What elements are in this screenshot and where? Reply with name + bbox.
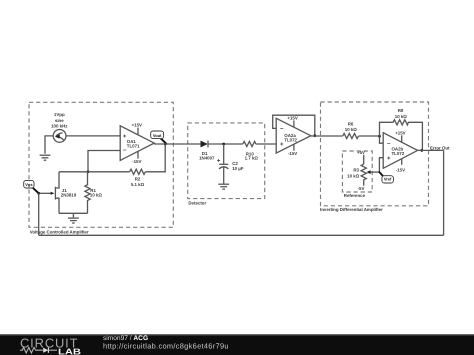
- svg-text:Detector: Detector: [188, 200, 206, 205]
- resistor R6 10k: [343, 122, 359, 139]
- wire: diode to R10: [208, 143, 243, 145]
- wire: R6 to inverting node: [359, 135, 380, 137]
- wire: node into OA2b - input: [380, 136, 384, 143]
- svg-text:+5V: +5V: [357, 150, 365, 155]
- svg-text:+: +: [217, 159, 221, 165]
- node: OA2b inverting junction: [378, 135, 381, 138]
- svg-text:10 µF: 10 µF: [232, 166, 244, 171]
- dashed box: Voltage Controlled Amplifier: [29, 102, 173, 234]
- svg-text:5.1 kΩ: 5.1 kΩ: [131, 182, 145, 187]
- wire: AGC feedback bottom rail: [39, 234, 444, 236]
- svg-text:-15V: -15V: [132, 159, 141, 164]
- power +5V: [357, 150, 365, 164]
- svg-text:10 kΩ: 10 kΩ: [347, 173, 360, 178]
- potentiometer R3 10k: [347, 164, 379, 186]
- svg-text:-15V: -15V: [288, 151, 297, 156]
- node label Vgs: [24, 180, 39, 193]
- wire: OA2b + input to reference: [379, 158, 383, 172]
- svg-text:10 kΩ: 10 kΩ: [90, 193, 103, 198]
- svg-text:+15V: +15V: [132, 123, 142, 128]
- svg-text:+15V: +15V: [395, 131, 405, 136]
- node: OA2a output junction: [313, 134, 316, 137]
- node: R1/J1/R2 junction: [87, 170, 90, 173]
- dashed box: Detector: [188, 123, 265, 205]
- svg-text:Error Out: Error Out: [430, 145, 450, 150]
- svg-text:R2: R2: [135, 177, 141, 182]
- wire: R10 to OA2a + input: [256, 143, 276, 145]
- svg-text:http://circuitlab.com/c8gk6et4: http://circuitlab.com/c8gk6et46r79u: [103, 341, 229, 350]
- transistor J1 2N3819 (N-JFET): [39, 172, 77, 214]
- svg-text:+: +: [387, 156, 391, 162]
- resistor R10 1.7k: [243, 141, 259, 160]
- svg-text:Vref: Vref: [384, 177, 392, 182]
- svg-text:TL071: TL071: [127, 143, 140, 148]
- svg-text:Vout: Vout: [153, 133, 162, 138]
- svg-text:100 kHz: 100 kHz: [51, 124, 68, 129]
- wire: OA2a feedback loop: [273, 115, 315, 136]
- svg-text:TL072: TL072: [284, 137, 297, 142]
- wire: OA2b output to error out: [418, 149, 444, 151]
- svg-text:LAB: LAB: [58, 347, 81, 355]
- svg-text:Inverting Differential Amplifi: Inverting Differential Amplifier: [320, 207, 383, 212]
- ground (C2): [218, 184, 229, 189]
- svg-text:-5V: -5V: [358, 186, 365, 191]
- wire: source to OA1 + input: [66, 135, 120, 137]
- svg-text:TL072: TL072: [392, 151, 405, 156]
- svg-text:R8: R8: [398, 108, 404, 113]
- node label Vref: [379, 172, 393, 183]
- svg-text:Reference: Reference: [344, 193, 366, 198]
- resistor R2 5.1k: [130, 169, 146, 187]
- svg-text:−: −: [280, 127, 284, 133]
- svg-text:C2: C2: [232, 161, 238, 166]
- resistor R8 10k feedback: [380, 108, 423, 150]
- wire: OA1 output to diode: [154, 143, 200, 145]
- wire: Vgs down to AGC feedback rail: [38, 193, 40, 235]
- dashed box: Reference: [342, 151, 372, 198]
- footer bar: [0, 334, 474, 355]
- wire: error out drop: [443, 150, 445, 235]
- svg-text:−: −: [123, 148, 127, 154]
- footer text: [103, 335, 229, 350]
- wire: feedback rail: [59, 144, 165, 172]
- ground (J1/R1): [68, 218, 79, 223]
- op-amp OA2a TL072 (voltage follower): [276, 115, 311, 156]
- svg-text:−: −: [387, 141, 391, 147]
- svg-text:R6: R6: [348, 122, 354, 127]
- svg-text:+15V: +15V: [287, 115, 297, 120]
- ground (source): [40, 155, 51, 160]
- svg-text:2N3819: 2N3819: [61, 193, 77, 198]
- diode D1 1N4007: [199, 141, 215, 161]
- node: Vgs junction: [37, 192, 40, 195]
- svg-text:10 kΩ: 10 kΩ: [345, 127, 358, 132]
- voltage source V1 1Vpp sine 100 kHz: [51, 112, 68, 142]
- svg-text:1Vpp: 1Vpp: [54, 112, 65, 117]
- wire: J1 source / R1 bottom rail: [59, 213, 88, 217]
- svg-text:Vgs: Vgs: [25, 182, 33, 187]
- node: detector junction: [222, 143, 225, 146]
- svg-text:+: +: [280, 142, 284, 148]
- node label Vout: [151, 131, 167, 144]
- wire: OA1 inverting input to feedback node: [88, 151, 120, 172]
- svg-text:sine: sine: [55, 118, 64, 123]
- capacitor C2 10uF: [217, 144, 244, 184]
- dashed box: Inverting Differential Amplifier: [320, 102, 429, 212]
- wire: OA2a output to R6: [311, 135, 343, 137]
- node: OA2b output junction: [420, 149, 423, 152]
- op-amp OA1 TL071: [120, 123, 154, 165]
- svg-text:1.7 kΩ: 1.7 kΩ: [245, 156, 259, 161]
- svg-text:R3: R3: [353, 168, 359, 173]
- svg-text:1N4007: 1N4007: [199, 156, 215, 161]
- resistor R1 10k: [85, 172, 103, 214]
- op-amp OA2b TL072: [383, 131, 417, 173]
- svg-text:-15V: -15V: [396, 167, 405, 172]
- wire: source left to ground: [45, 136, 53, 154]
- node: Vout junction: [164, 143, 167, 146]
- logo CIRCUIT LAB: [20, 335, 81, 355]
- svg-text:10 kΩ: 10 kΩ: [395, 114, 408, 119]
